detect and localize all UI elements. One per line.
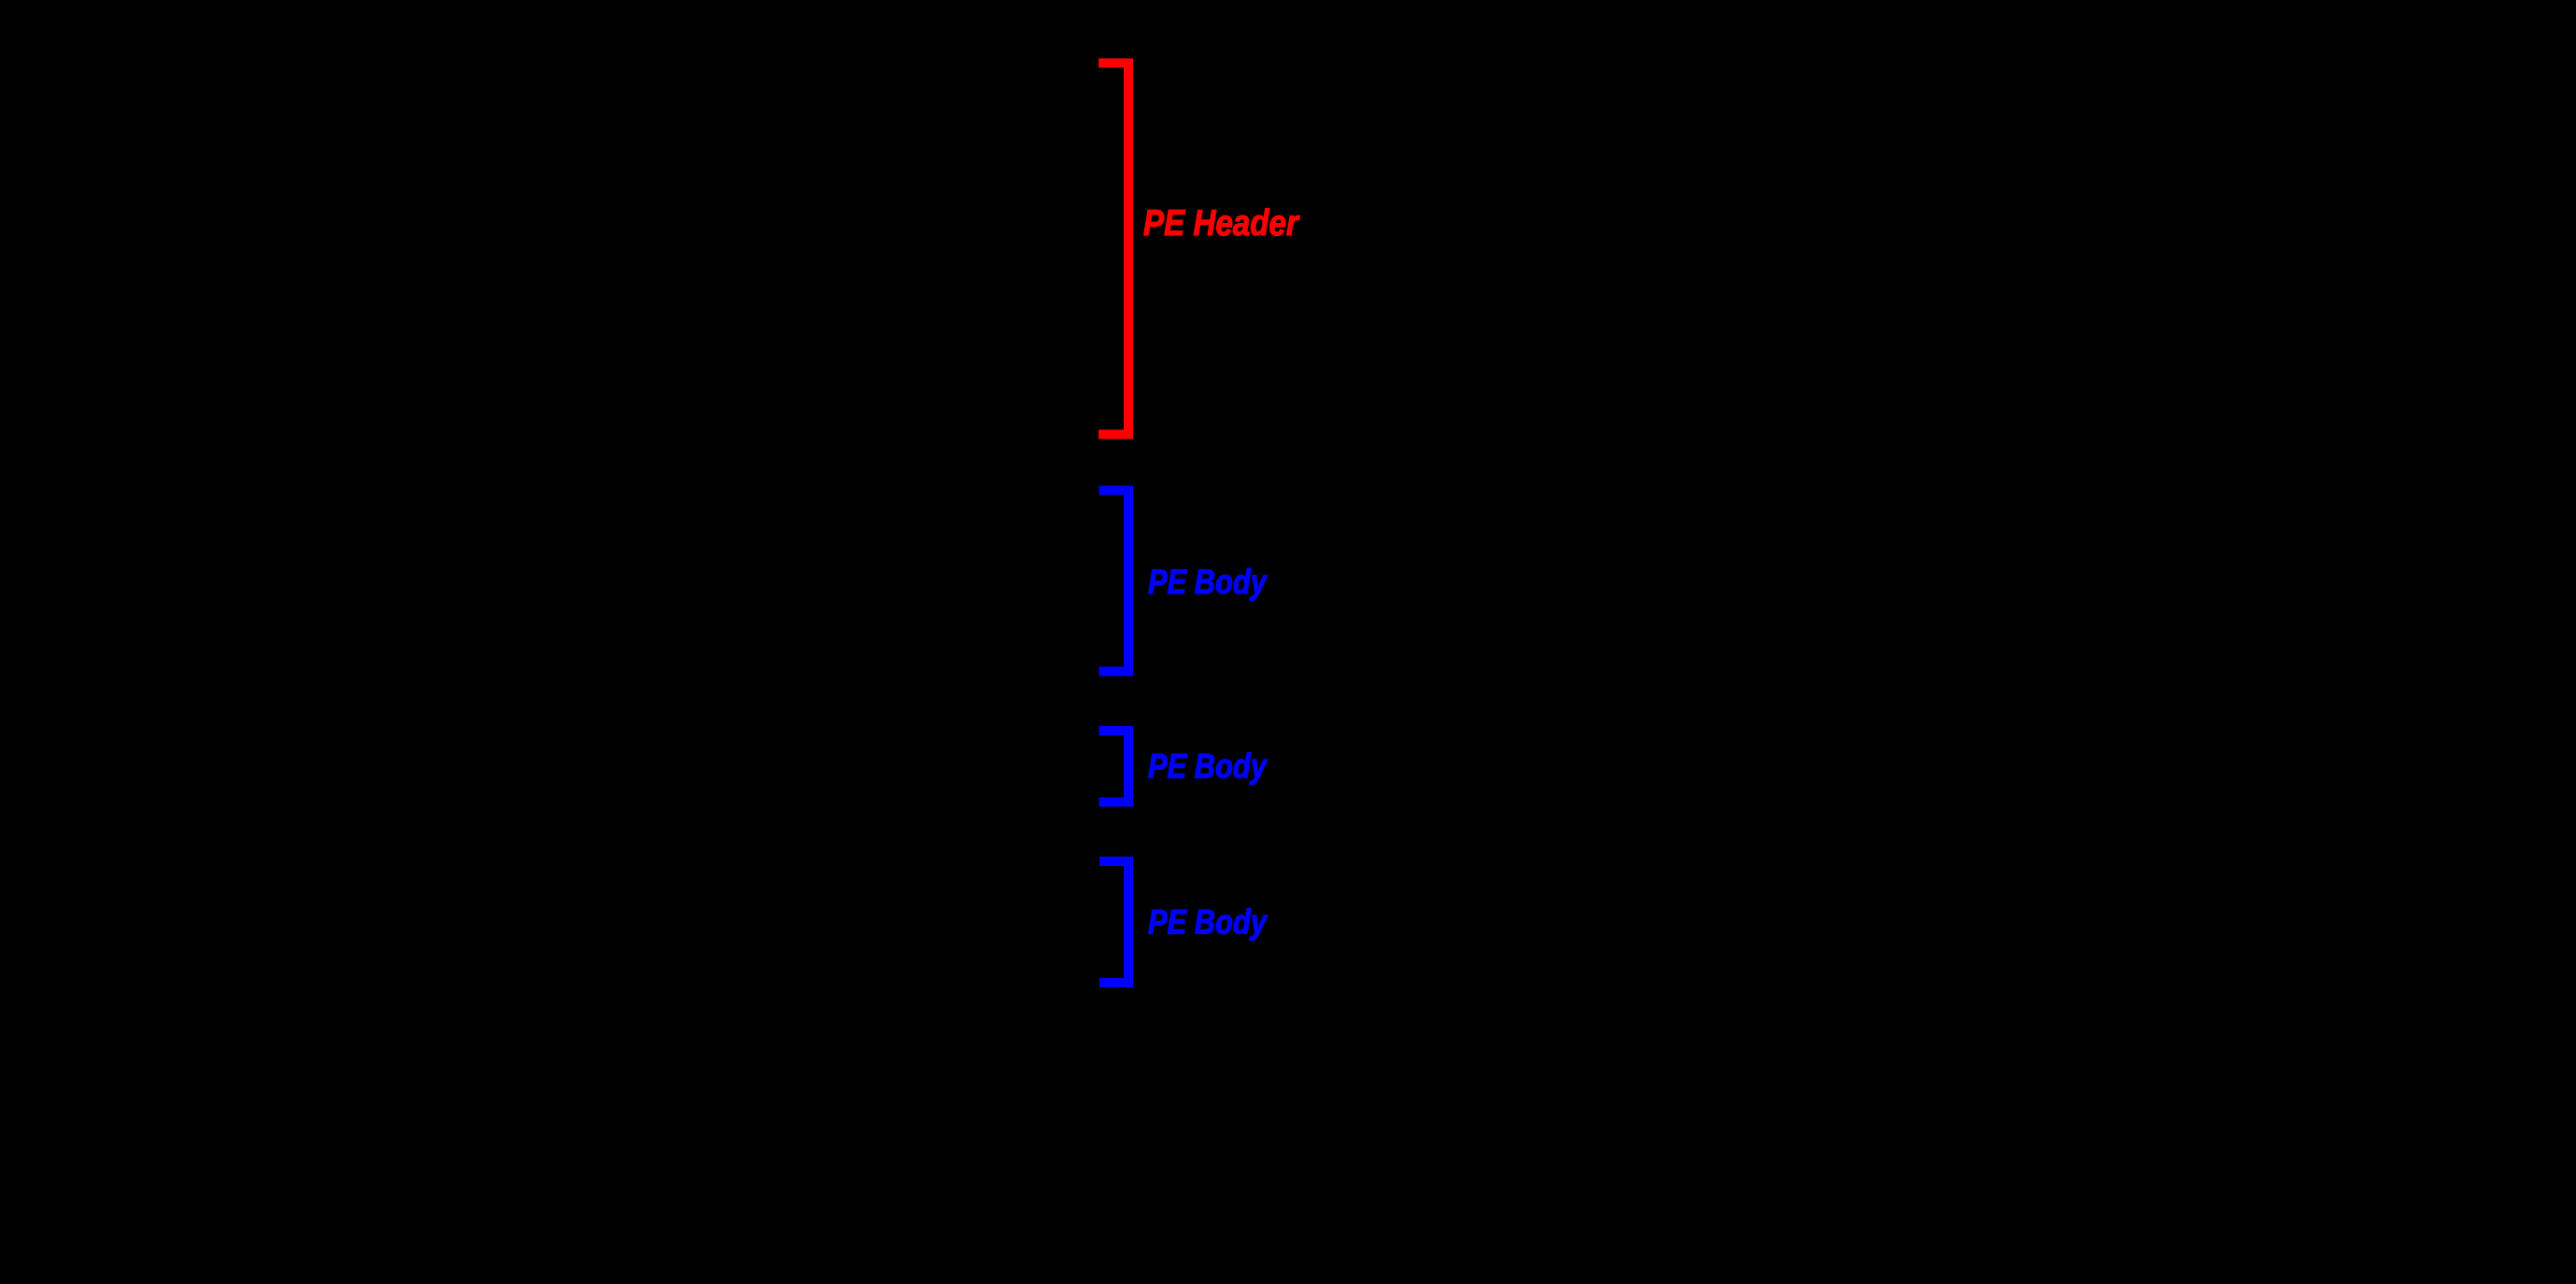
svg-text:PE Body: PE Body	[1148, 902, 1268, 942]
bracket PE Body 2 (blue)	[1099, 731, 1129, 802]
bracket PE Header (red)	[1099, 63, 1128, 435]
svg-text:PE Header: PE Header	[1143, 203, 1300, 244]
bracket PE Body 3 (blue)	[1099, 861, 1128, 983]
svg-text:PE Body: PE Body	[1148, 562, 1268, 601]
svg-text:PE Body: PE Body	[1148, 747, 1268, 786]
bracket PE Body 1 (blue)	[1099, 491, 1129, 672]
